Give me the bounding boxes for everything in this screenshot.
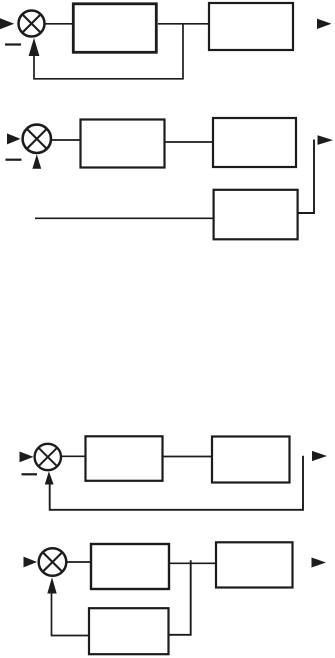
block W6 — [86, 436, 163, 481]
wire S4 to block W8 — [67, 561, 92, 563]
wire S1 to block W1 — [45, 23, 73, 25]
feedback arrowhead into bottom of S1 — [29, 38, 40, 56]
summing junction S2 — [23, 125, 51, 153]
block W5 — [214, 190, 298, 240]
feedback arrowhead into bottom of S4 — [47, 577, 56, 593]
input arrow into summer S3 — [20, 452, 34, 463]
summing junction S1 — [19, 11, 45, 37]
input arrow into summer S1 — [0, 18, 14, 29]
wire: feedback branch down from node between W1 and W2 — [34, 25, 183, 79]
wire S2 to block W3 — [52, 139, 81, 141]
wire W1 to block W2 — [158, 23, 209, 25]
wire: W9 output back to summer S4 — [52, 588, 89, 636]
output arrow of diagram 3 — [312, 451, 327, 461]
summing junction S3 — [35, 444, 61, 470]
block W2 — [209, 3, 293, 50]
minus sign at S2 — [6, 159, 22, 161]
block W4 — [213, 118, 296, 167]
output arrow of diagram 1 — [317, 19, 332, 29]
block W3 — [81, 120, 165, 168]
block W7 — [212, 437, 290, 483]
wire: long lower input line into block W5 — [35, 217, 213, 219]
feedback arrowhead into bottom of S3 — [45, 471, 54, 484]
minus sign at S1 — [5, 43, 21, 45]
block W1 — [73, 4, 156, 53]
block W10 — [216, 542, 293, 587]
minus sign at S3 — [22, 473, 38, 475]
wire: branch from node after W8 down into W9 input — [170, 560, 191, 635]
wire W8 to block W10 — [170, 562, 216, 564]
summing junction S4 — [39, 548, 67, 576]
wire S3 to block W6 — [61, 455, 85, 457]
input arrow into summer S2 — [7, 133, 21, 144]
wire: feedback loop of diagram 3 — [50, 456, 303, 510]
output arrow of diagram 4 — [312, 558, 327, 568]
wire W6 to block W7 — [163, 456, 212, 458]
wire: W5 output up to output node of diagram 2 — [299, 140, 315, 214]
wire W3 to block W4 — [165, 141, 213, 143]
input arrow into summer S4 — [24, 557, 38, 568]
output arrow of diagram 2 — [318, 135, 334, 145]
block W9 — [89, 608, 169, 654]
feedback arrowhead stub into bottom of S2 — [32, 154, 41, 169]
block W8 — [91, 544, 169, 589]
